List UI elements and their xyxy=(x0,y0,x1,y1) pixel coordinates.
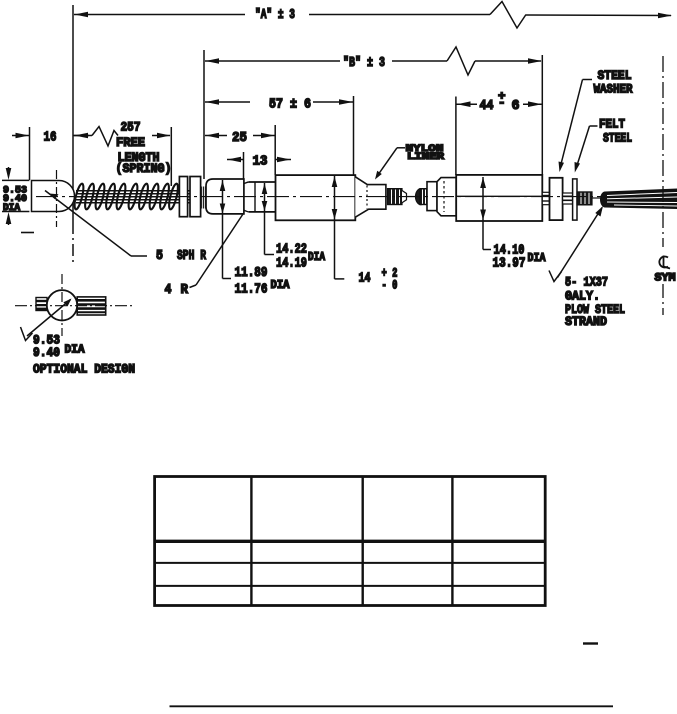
dim A line xyxy=(74,14,245,16)
fitting 1 neck xyxy=(244,182,249,212)
table xyxy=(155,477,546,606)
washer 1 xyxy=(179,177,187,217)
dim A extension line left xyxy=(72,5,74,222)
dim 14.22 vertical xyxy=(264,183,266,255)
svg-text:5: 5 xyxy=(156,248,163,264)
shaft between washers xyxy=(563,193,573,204)
dim 11.89 vertical xyxy=(222,180,224,279)
svg-text:25: 25 xyxy=(232,130,247,146)
washer 2 xyxy=(190,177,201,217)
svg-text:DIA: DIA xyxy=(3,203,20,214)
svg-text:5- 1X37: 5- 1X37 xyxy=(565,275,608,290)
leader 4 R xyxy=(190,285,197,288)
svg-text:OPTIONAL DESIGN: OPTIONAL DESIGN xyxy=(33,362,135,377)
SYM centerline xyxy=(662,56,664,247)
svg-text:DIA: DIA xyxy=(308,250,326,264)
svg-text:R: R xyxy=(181,282,189,298)
svg-text:14: 14 xyxy=(359,271,371,287)
svg-text:"B" ± 3: "B" ± 3 xyxy=(343,55,385,71)
leader FELT STEEL xyxy=(590,125,598,127)
eye centerline vertical xyxy=(56,170,58,227)
svg-text:6: 6 xyxy=(512,98,520,114)
bottom rule xyxy=(170,705,614,707)
optional design: leader xyxy=(27,300,71,337)
spring shaft lines xyxy=(76,190,201,192)
nose of fitting 1 xyxy=(355,177,386,217)
main horizontal centerline xyxy=(36,196,608,198)
dim 16 line (outside arrows) xyxy=(12,135,30,137)
small dash bottom right xyxy=(583,642,598,644)
dim 44 line xyxy=(457,103,478,105)
dim 257 extension right xyxy=(170,127,172,186)
hidden line in nose xyxy=(366,186,368,209)
dim B extension line right xyxy=(541,55,543,175)
optional design: left stub xyxy=(36,298,47,311)
svg-text:11.89: 11.89 xyxy=(235,265,268,281)
svg-text:4: 4 xyxy=(165,282,172,298)
steel washer xyxy=(550,178,563,220)
svg-text:- 0: - 0 xyxy=(382,278,398,293)
svg-text:57 ± 6: 57 ± 6 xyxy=(269,97,311,113)
fitting 1 collar/section2 xyxy=(249,182,276,212)
svg-text:WASHER: WASHER xyxy=(594,82,633,97)
dim 14 +2/-0 vertical xyxy=(334,176,336,279)
leader 5- 1X37 strand xyxy=(558,208,603,278)
svg-text:SPH R: SPH R xyxy=(177,248,206,264)
fitting 1 bell xyxy=(206,179,244,214)
fitting 2 cap xyxy=(427,182,437,211)
stray tick left margin xyxy=(21,232,34,234)
optional design: right stub xyxy=(77,297,106,315)
svg-text:STEEL: STEEL xyxy=(603,131,632,146)
svg-text:FELT: FELT xyxy=(599,117,625,132)
dim 9.53 eye arrows xyxy=(8,167,10,174)
svg-text:257: 257 xyxy=(121,120,141,135)
dim 13 line (outside arrows) xyxy=(227,159,244,161)
dim 44 extension left xyxy=(455,97,457,176)
svg-text:9.40: 9.40 xyxy=(33,345,60,360)
cable strand xyxy=(600,189,677,210)
svg-text:"A" ± 3: "A" ± 3 xyxy=(255,7,295,23)
cylinder 1 xyxy=(276,175,356,220)
cylinder 2 xyxy=(456,175,542,221)
splined stub B xyxy=(416,189,422,205)
fitting 2 flange xyxy=(437,178,456,216)
splined stub A xyxy=(388,189,403,205)
svg-text:DIA: DIA xyxy=(271,278,291,292)
spring coils xyxy=(73,183,180,210)
svg-text:14.19: 14.19 xyxy=(276,256,307,272)
svg-text:-: - xyxy=(498,96,506,110)
eye end fitting xyxy=(32,181,75,212)
svg-text:13.97: 13.97 xyxy=(493,256,526,272)
svg-text:DIA: DIA xyxy=(528,251,547,265)
dim 16 extension left xyxy=(29,127,31,180)
optional design: circle xyxy=(47,290,77,320)
svg-text:11.76: 11.76 xyxy=(235,282,268,298)
dim B extension line left xyxy=(203,50,205,179)
svg-text:44: 44 xyxy=(480,98,494,114)
svg-text:13: 13 xyxy=(253,154,268,170)
dim 25 line xyxy=(205,135,227,137)
optional design: centerlines xyxy=(61,274,63,336)
dim 57 extension right xyxy=(353,96,355,175)
link to strand xyxy=(592,197,602,199)
dim 9.53 eye: extension lines xyxy=(2,179,29,181)
svg-text:(SPRING): (SPRING) xyxy=(116,161,172,176)
svg-text:DIA: DIA xyxy=(65,343,86,357)
dim 25/13 extension right xyxy=(274,125,276,175)
centerline symbol xyxy=(659,256,670,269)
leader 5 SPH R xyxy=(45,191,131,257)
dim 14.10 vertical xyxy=(482,177,484,250)
dim 257 free length line with break xyxy=(73,135,92,137)
splined shaft E xyxy=(577,192,592,205)
svg-text:LINER: LINER xyxy=(407,152,444,163)
shaft right of cylinder 2 xyxy=(542,192,549,204)
leader NYLON LINER xyxy=(397,147,405,149)
dim 57 line xyxy=(205,101,250,103)
dim B line xyxy=(205,60,340,62)
svg-text:16: 16 xyxy=(44,130,57,146)
felt washer xyxy=(573,179,577,220)
svg-text:STRAND: STRAND xyxy=(565,314,607,329)
threaded segment xyxy=(201,187,206,209)
leader STEEL WASHER xyxy=(583,79,593,81)
dim 13 extension left xyxy=(243,152,245,179)
svg-text:FREE: FREE xyxy=(116,135,145,150)
svg-text:SYM: SYM xyxy=(655,273,676,285)
